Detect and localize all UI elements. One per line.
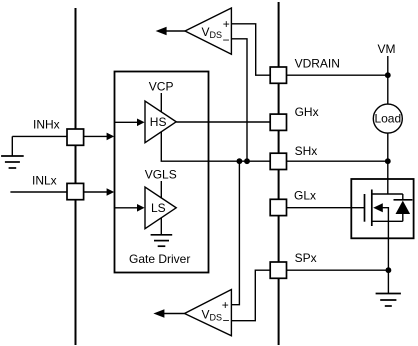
wire FET source to SPx node bbox=[387, 238, 389, 270]
svg-text:GHx: GHx bbox=[295, 105, 319, 119]
wire SPx node to ground bbox=[387, 270, 389, 293]
node load-SHx junction bbox=[385, 158, 391, 164]
wire VDS bottom minus input to SPx bbox=[231, 270, 270, 321]
wire VDS top output arrow bbox=[156, 27, 185, 35]
pin INLx bbox=[67, 183, 84, 199]
pin GHx bbox=[270, 114, 286, 130]
wire ground riser bbox=[11, 136, 13, 156]
ground GND2 in gate driver bbox=[151, 235, 173, 246]
svg-text:HS: HS bbox=[150, 115, 167, 129]
wire VM lead bbox=[387, 56, 389, 75]
svg-text:VCP: VCP bbox=[149, 80, 174, 94]
wire GLx into box bbox=[351, 207, 364, 209]
ground GND3 right bbox=[376, 294, 401, 307]
svg-text:+: + bbox=[223, 17, 230, 31]
wire SHx node to FET drain bbox=[387, 161, 389, 194]
pin SPx bbox=[270, 262, 286, 278]
wire SPx to FET source node bbox=[287, 269, 389, 271]
wire GLx to FET gate bbox=[287, 207, 365, 209]
op-amp VDS monitor bottom bbox=[185, 290, 232, 336]
wire VGLS lead bbox=[160, 181, 162, 199]
op-amp VDS monitor top bbox=[185, 8, 231, 54]
diode D1 body diode bbox=[394, 194, 413, 221]
svg-text:INLx: INLx bbox=[32, 174, 57, 188]
wire VDS bottom plus input to SHx node bbox=[231, 161, 239, 305]
wire VM node to load to SHx node bbox=[387, 75, 389, 161]
transistor Q1 nmos bbox=[365, 179, 403, 238]
svg-text:LS: LS bbox=[151, 201, 166, 215]
buffer LS bbox=[145, 187, 176, 229]
wire VDS top plus input to VDRAIN bbox=[231, 24, 270, 75]
node SPx junction bbox=[386, 267, 392, 273]
pin INHx bbox=[67, 129, 84, 145]
node VM junction bbox=[385, 72, 391, 78]
right pin bus bbox=[278, 2, 280, 345]
svg-text:+: + bbox=[222, 298, 229, 312]
svg-text:Load: Load bbox=[374, 112, 401, 126]
svg-text:−: − bbox=[222, 33, 229, 47]
wire INHx from ground to pin bbox=[12, 135, 67, 137]
transistor box bbox=[351, 179, 413, 238]
pin SHx bbox=[270, 153, 286, 169]
gate driver box U1 bbox=[115, 72, 209, 273]
wire VDS bottom output arrow bbox=[153, 309, 184, 317]
wire VCP lead bbox=[160, 93, 162, 112]
pin VDRAIN bbox=[270, 67, 286, 83]
left input bus bbox=[75, 8, 77, 345]
wire HS output to GHx bbox=[176, 121, 270, 123]
node SHx junction 2 bbox=[244, 158, 250, 164]
wire LS ground lead bbox=[160, 218, 162, 235]
buffer HS bbox=[145, 101, 176, 143]
wire HS input arrow bbox=[115, 119, 145, 127]
wire VDRAIN to VM node bbox=[287, 74, 388, 76]
wire VDS top minus input to SHx bbox=[231, 39, 247, 161]
svg-text:Gate Driver: Gate Driver bbox=[129, 252, 190, 266]
ground GND1 left bbox=[1, 156, 24, 168]
svg-text:VGLS: VGLS bbox=[145, 168, 177, 182]
wire INLx to gate driver bbox=[84, 188, 115, 196]
wire HS source to SHx node bbox=[161, 132, 270, 162]
load L1 bbox=[373, 104, 402, 133]
svg-text:VM: VM bbox=[378, 42, 396, 56]
svg-text:−: − bbox=[222, 314, 229, 328]
svg-text:VDRAIN: VDRAIN bbox=[295, 57, 340, 71]
pin GLx bbox=[270, 199, 286, 215]
node SHx junction 1 bbox=[237, 158, 243, 164]
wire SHx to load node bbox=[287, 160, 388, 162]
wire INHx to gate driver bbox=[84, 133, 114, 141]
svg-text:SPx: SPx bbox=[295, 251, 317, 265]
wire LS input arrow bbox=[115, 204, 145, 212]
wire INLx input bbox=[10, 191, 67, 193]
svg-text:SHx: SHx bbox=[295, 144, 318, 158]
svg-text:GLx: GLx bbox=[294, 188, 316, 202]
svg-text:INHx: INHx bbox=[33, 118, 60, 132]
